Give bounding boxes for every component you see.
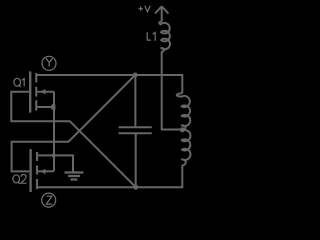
node Z terminal — [42, 193, 56, 207]
capacitor wire bottom — [135, 134, 137, 187]
ground — [65, 173, 84, 180]
label L1 — [147, 32, 155, 40]
node top junction — [133, 73, 138, 78]
transformer upper winding — [177, 93, 191, 130]
wire Q1 body-source to Q2 drain node — [37, 92, 54, 172]
transformer lower winding — [182, 130, 191, 165]
wire ground branch — [54, 155, 74, 171]
label +V — [139, 6, 151, 12]
wire Q1 source stub — [37, 106, 50, 108]
wire top rail (Q1 drain to transformer top) — [36, 75, 182, 93]
wire L1 to center tap — [162, 52, 182, 130]
label Q1 — [14, 78, 24, 87]
wire Q2 gate lead — [12, 75, 136, 171]
label Q2 — [13, 174, 27, 183]
+V arrow — [155, 6, 168, 21]
transistor Q2 — [29, 149, 45, 192]
capacitor C wire top — [134, 75, 136, 126]
node bottom junction — [133, 185, 138, 190]
inductor L1 — [159, 22, 170, 53]
capacitor plates — [119, 127, 152, 133]
transistor Q1 — [29, 71, 55, 112]
node transformer center tap — [180, 127, 185, 132]
wire bottom rail (Q2 source to transformer bottom) — [38, 165, 182, 187]
node Y terminal — [42, 56, 56, 70]
wire Q2 drain stub — [38, 154, 53, 156]
wire Q2 body stub — [38, 170, 54, 172]
wire Q1 gate lead — [11, 92, 136, 188]
node Q1 source / Q2 drain junction — [51, 153, 57, 159]
